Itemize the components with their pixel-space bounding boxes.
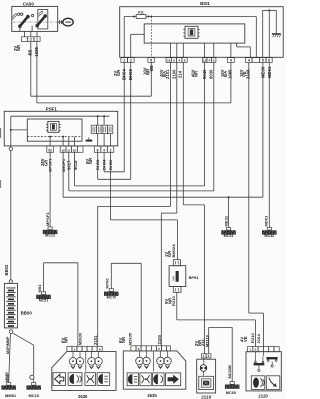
svg-text:BM02A: BM02A — [171, 244, 176, 258]
svg-text:M700: M700 — [104, 278, 109, 289]
svg-text:NR: NR — [64, 337, 69, 343]
svg-text:BSI1: BSI1 — [200, 1, 210, 6]
svg-text:NR: NR — [194, 71, 199, 77]
svg-text:9018: 9018 — [73, 160, 78, 170]
svg-text:MC60: MC60 — [226, 391, 236, 395]
svg-text:R210: R210 — [171, 296, 176, 306]
svg-text:02: 02 — [73, 148, 77, 152]
svg-text:MC32: MC32 — [264, 234, 274, 238]
svg-text:5: 5 — [150, 58, 152, 62]
svg-text:M3P/MMP: M3P/MMP — [6, 336, 10, 354]
svg-text:214: 214 — [178, 70, 183, 78]
svg-text:11: 11 — [67, 148, 71, 152]
svg-text:4: 4 — [103, 148, 105, 152]
svg-text:MPSF1: MPSF1 — [45, 212, 50, 226]
svg-text:GR: GR — [116, 70, 121, 76]
svg-text:MM01: MM01 — [5, 393, 17, 398]
svg-text:M2635: M2635 — [128, 332, 133, 345]
svg-text:040: 040 — [171, 276, 175, 281]
svg-text:1: 1 — [123, 58, 125, 62]
svg-text:8: 8 — [97, 148, 99, 152]
svg-text:2: 2 — [30, 38, 32, 42]
svg-text:4: 4 — [248, 58, 250, 62]
svg-text:NR: NR — [121, 337, 126, 343]
svg-text:BB02: BB02 — [4, 264, 9, 276]
svg-text:PSF1: PSF1 — [46, 107, 58, 112]
svg-text:BH08: BH08 — [128, 68, 133, 80]
svg-text:BFH1: BFH1 — [189, 276, 199, 280]
svg-text:1: 1 — [36, 38, 38, 42]
svg-text:19: 19 — [61, 148, 65, 152]
svg-text:2100: 2100 — [157, 334, 162, 344]
svg-text:2630: 2630 — [78, 394, 88, 399]
svg-text:2100: 2100 — [171, 69, 176, 79]
svg-text:210A: 210A — [256, 334, 261, 344]
svg-text:MC31: MC31 — [224, 234, 234, 238]
svg-text:2120: 2120 — [258, 394, 268, 399]
svg-text:2108: 2108 — [246, 69, 251, 79]
svg-text:M51: M51 — [37, 284, 42, 293]
svg-text:NR: NR — [16, 45, 21, 51]
svg-text:BH04: BH04 — [121, 68, 126, 80]
svg-text:2110: 2110 — [201, 394, 211, 399]
svg-text:1085: 1085 — [34, 46, 39, 56]
svg-text:VE: VE — [243, 336, 248, 342]
svg-text:2: 2 — [110, 148, 112, 152]
svg-text:2635: 2635 — [147, 393, 157, 398]
svg-text:MD01: MD01 — [267, 66, 272, 78]
svg-text:12: 12 — [203, 58, 207, 62]
svg-text:2: 2 — [130, 58, 132, 62]
svg-text:2101: 2101 — [93, 335, 98, 345]
svg-text:ME30: ME30 — [260, 66, 265, 78]
svg-text:6: 6 — [268, 58, 270, 62]
svg-text:BB00: BB00 — [21, 311, 33, 316]
svg-text:CA00: CA00 — [23, 2, 35, 7]
svg-text:MMP: MMP — [4, 372, 9, 382]
svg-text:F11: F11 — [138, 11, 144, 15]
svg-text:MC12: MC12 — [45, 234, 55, 238]
svg-text:BE: BE — [149, 65, 154, 71]
svg-text:MC60B: MC60B — [227, 365, 232, 379]
svg-text:9017: 9017 — [67, 160, 72, 170]
svg-text:2101: 2101 — [165, 69, 170, 79]
svg-text:02: 02 — [48, 148, 52, 152]
svg-text:5: 5 — [262, 58, 264, 62]
svg-text:NR: NR — [88, 158, 93, 164]
svg-text:R210: R210 — [250, 333, 255, 343]
svg-text:1085: 1085 — [228, 69, 233, 79]
svg-text:15: 15 — [167, 58, 171, 62]
svg-text:MC51: MC51 — [39, 298, 48, 302]
svg-text:M2110: M2110 — [205, 335, 210, 347]
svg-text:MC10: MC10 — [28, 393, 39, 398]
svg-text:M2630: M2630 — [77, 333, 82, 345]
svg-text:ME31: ME31 — [224, 215, 229, 226]
svg-text:4: 4 — [230, 58, 232, 62]
svg-text:BE: BE — [27, 49, 32, 55]
svg-text:MC70: MC70 — [107, 295, 116, 299]
svg-text:MD01: MD01 — [263, 215, 268, 227]
svg-text:9030: 9030 — [208, 69, 213, 79]
svg-text:9040: 9040 — [202, 69, 207, 79]
